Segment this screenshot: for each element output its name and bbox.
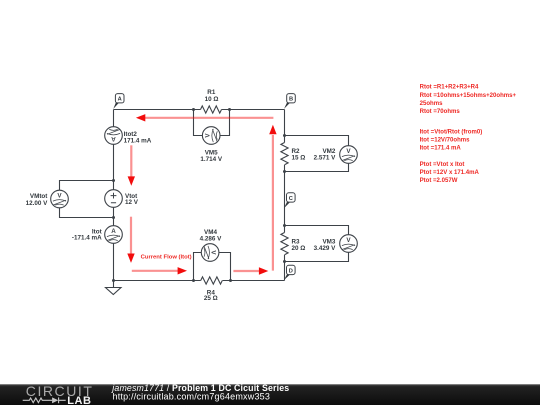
- wire VM2 branch: [285, 136, 349, 172]
- junction R4 right / VM4: [229, 279, 232, 282]
- current flow arrow right (bottom right of R4): [233, 267, 268, 274]
- current flow arrow up (right): [269, 125, 276, 271]
- junction R4 left / VM4: [192, 279, 195, 282]
- junction R1 left / VM5: [192, 108, 195, 111]
- wire VM5 branch: [194, 110, 230, 136]
- voltmeter VM2: [340, 146, 358, 164]
- svg-text:A: A: [111, 135, 116, 142]
- junction VMtot top / left rail: [112, 179, 115, 182]
- node C: [284, 193, 295, 209]
- svg-text:Rtot =R1+R2+R3+R4Rtot =10ohms+: Rtot =R1+R2+R3+R4Rtot =10ohms+15ohms+20o…: [420, 85, 517, 115]
- ammeter Itot: [105, 226, 123, 244]
- junction R3 bottom / VM3: [283, 260, 286, 263]
- wire VM3 branch: [285, 226, 349, 262]
- wire VM4 branch: [194, 253, 231, 281]
- svg-text:3.429 V: 3.429 V: [314, 245, 337, 252]
- voltmeter VM4: [201, 244, 219, 262]
- svg-text:25 Ω: 25 Ω: [204, 295, 218, 302]
- ground: [106, 281, 122, 295]
- junction R2 top / VM2: [283, 134, 286, 137]
- svg-text:10 Ω: 10 Ω: [205, 96, 219, 103]
- svg-text:12 V: 12 V: [125, 199, 139, 206]
- svg-text:Itot =Vtot/Rtot (from0)Itot =1: Itot =Vtot/Rtot (from0)Itot =12V/70ohmsI…: [420, 130, 483, 152]
- resistor R1: [201, 106, 222, 113]
- wire right vertical B down with R2 R3 gaps: [284, 110, 286, 281]
- svg-text:LAB: LAB: [67, 395, 91, 405]
- node B: [284, 94, 295, 109]
- resistor R2: [281, 143, 288, 165]
- current flow arrow right (bottom left of R4): [132, 267, 187, 274]
- svg-text:A: A: [111, 228, 116, 235]
- logo resistor-diode symbol: [23, 397, 66, 403]
- svg-text:VMtot: VMtot: [30, 193, 48, 200]
- svg-text:B: B: [289, 97, 293, 103]
- current flow arrow left (top): [136, 114, 274, 121]
- resistor R3: [281, 233, 288, 255]
- junction R2 bottom / VM2: [283, 170, 286, 173]
- svg-text:4.286 V: 4.286 V: [200, 235, 223, 242]
- junction R1 right / VM5: [228, 108, 231, 111]
- wire bottom D to ground with R4 gap: [114, 280, 285, 282]
- svg-text:171.4 mA: 171.4 mA: [124, 137, 152, 144]
- wire top A-B with R1 gap: [114, 109, 285, 111]
- svg-text:2.571 V: 2.571 V: [314, 154, 337, 161]
- resistor R4: [201, 277, 223, 284]
- svg-text:20 Ω: 20 Ω: [292, 245, 306, 252]
- svg-text:C: C: [289, 196, 293, 202]
- svg-text:Current Flow (Itot): Current Flow (Itot): [141, 255, 192, 261]
- svg-text:http://circuitlab.com/cm7g64em: http://circuitlab.com/cm7g64emxw353: [113, 391, 271, 401]
- svg-text:D: D: [289, 268, 293, 274]
- svg-text:Ptot =Vtot x ItotPtot =12V x 1: Ptot =Vtot x ItotPtot =12V x 171.4mAPtot…: [420, 162, 480, 184]
- current flow arrow down (lower left): [127, 217, 134, 263]
- footer bar: [0, 384, 540, 405]
- svg-text:15 Ω: 15 Ω: [292, 154, 306, 161]
- voltmeter VM3: [340, 235, 358, 253]
- svg-text:1.714 V: 1.714 V: [200, 156, 223, 163]
- voltmeter VMtot: [51, 190, 69, 208]
- svg-text:A: A: [118, 97, 122, 103]
- svg-text:-171.4 mA: -171.4 mA: [72, 235, 102, 242]
- junction VMtot bottom / left rail: [112, 216, 115, 219]
- voltmeter VM5: [202, 127, 220, 145]
- ammeter Itot2: [105, 127, 123, 145]
- svg-text:12.00 V: 12.00 V: [26, 200, 49, 207]
- wire left vertical A down: [113, 110, 115, 281]
- current flow arrow down (upper left): [128, 145, 135, 186]
- source Vtot: [105, 190, 123, 208]
- junction R3 top / VM3: [283, 224, 286, 227]
- wire VMtot branch: [60, 181, 114, 218]
- junction ground / bottom rail: [112, 279, 115, 282]
- node A: [113, 94, 124, 109]
- node D: [284, 265, 295, 280]
